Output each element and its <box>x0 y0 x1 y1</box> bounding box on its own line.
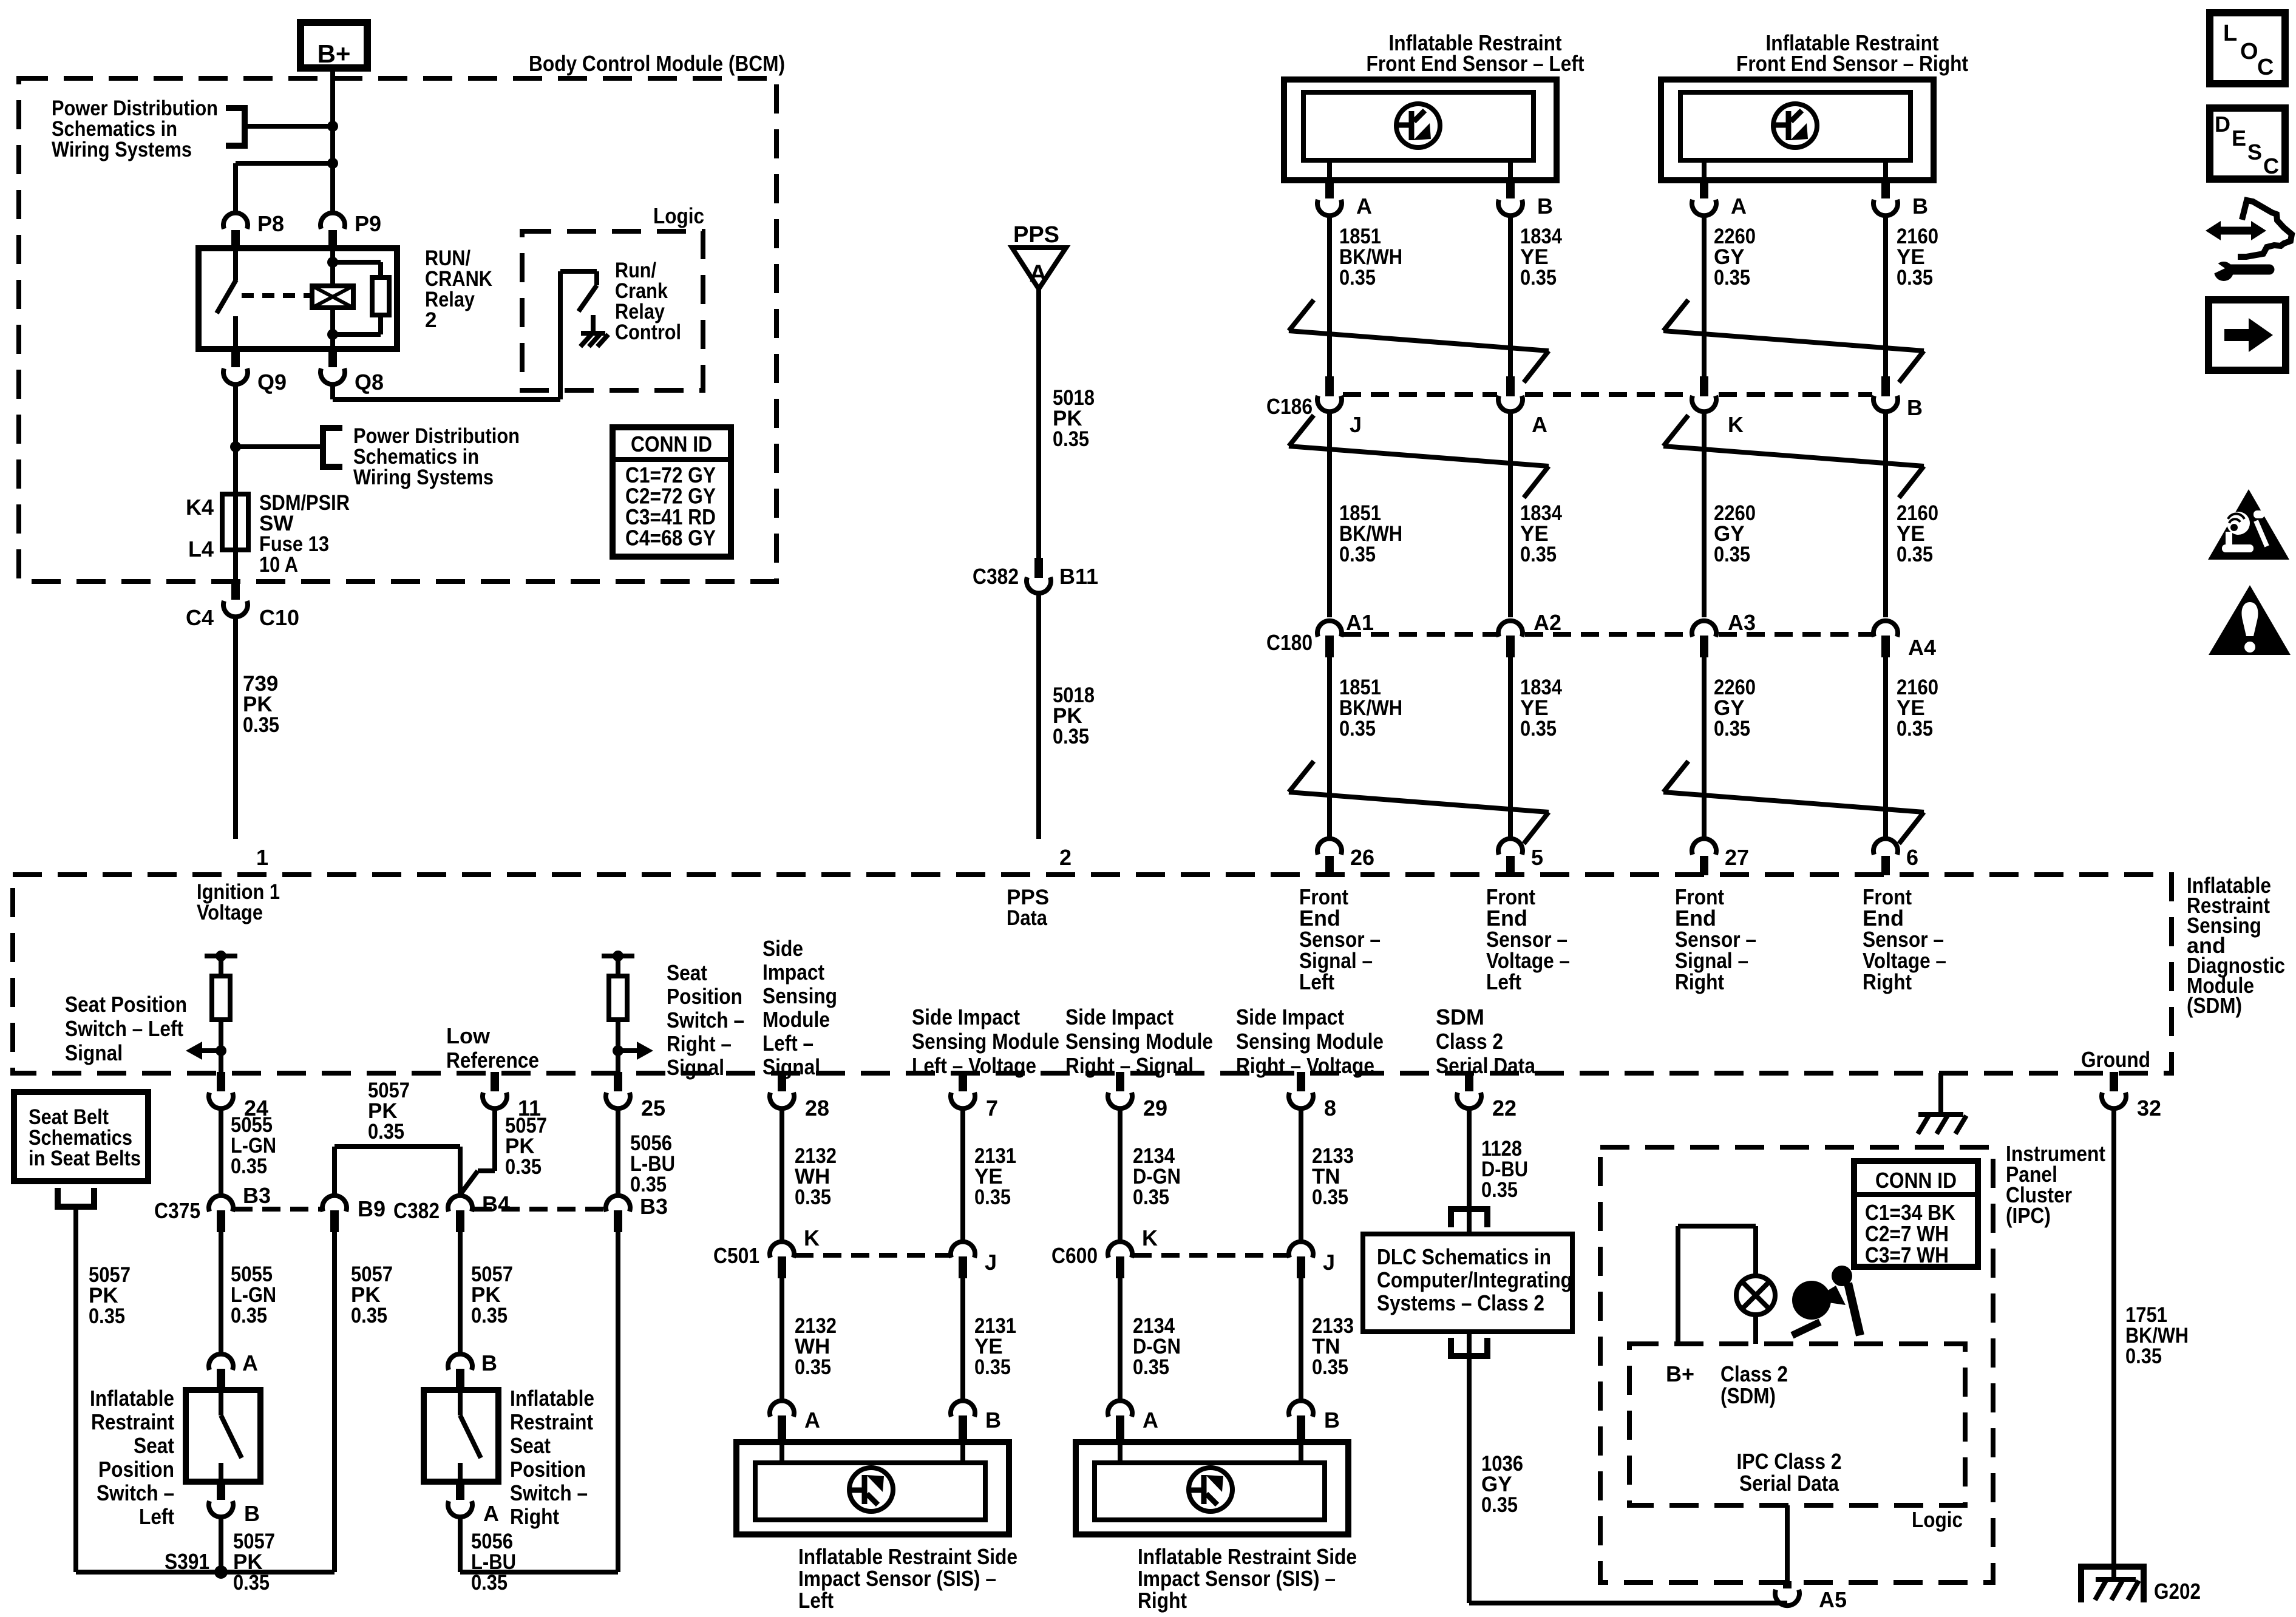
svg-text:C: C <box>2263 154 2279 178</box>
svg-text:Position: Position <box>667 984 742 1009</box>
svg-text:0.35: 0.35 <box>1897 266 1933 290</box>
svg-text:B3: B3 <box>640 1194 668 1219</box>
svg-text:Seat Position: Seat Position <box>65 992 187 1017</box>
svg-text:0.35: 0.35 <box>1481 1493 1518 1517</box>
svg-text:D: D <box>2215 112 2230 137</box>
svg-text:0.35: 0.35 <box>505 1155 542 1179</box>
svg-text:Class 2: Class 2 <box>1436 1029 1503 1054</box>
svg-text:2: 2 <box>425 308 436 332</box>
svg-text:CONN ID: CONN ID <box>631 432 712 456</box>
svg-text:Inflatable: Inflatable <box>510 1386 594 1411</box>
svg-text:B: B <box>1907 395 1923 420</box>
svg-text:Switch – Left: Switch – Left <box>65 1016 183 1041</box>
svg-text:0.35: 0.35 <box>1481 1178 1518 1202</box>
svg-text:Side: Side <box>763 936 803 961</box>
svg-text:2: 2 <box>1059 845 1072 870</box>
svg-text:Module: Module <box>763 1007 830 1032</box>
svg-text:Q8: Q8 <box>355 370 384 395</box>
svg-text:Position: Position <box>98 1457 174 1482</box>
svg-text:Body Control Module (BCM): Body Control Module (BCM) <box>529 51 785 76</box>
svg-text:A: A <box>1143 1408 1158 1432</box>
svg-text:0.35: 0.35 <box>1133 1355 1169 1379</box>
svg-text:Left: Left <box>1299 969 1334 994</box>
svg-text:29: 29 <box>1143 1096 1167 1120</box>
svg-text:0.35: 0.35 <box>1714 266 1750 290</box>
svg-text:Restraint: Restraint <box>510 1409 593 1434</box>
svg-text:Ground: Ground <box>2081 1047 2150 1072</box>
svg-text:0.35: 0.35 <box>89 1304 125 1328</box>
svg-text:P8: P8 <box>257 211 284 236</box>
svg-text:1: 1 <box>256 845 268 870</box>
svg-text:C3=7 WH: C3=7 WH <box>1865 1242 1949 1267</box>
svg-text:0.35: 0.35 <box>974 1355 1011 1379</box>
svg-text:5: 5 <box>1531 845 1543 870</box>
svg-text:B: B <box>985 1408 1001 1432</box>
svg-text:B: B <box>1324 1408 1340 1432</box>
svg-text:CONN ID: CONN ID <box>1875 1168 1957 1193</box>
svg-text:(IPC): (IPC) <box>2006 1203 2051 1228</box>
svg-text:0.35: 0.35 <box>1339 543 1376 566</box>
svg-text:0.35: 0.35 <box>2125 1344 2162 1368</box>
svg-text:Side Impact: Side Impact <box>1236 1005 1344 1029</box>
svg-text:P9: P9 <box>355 211 381 236</box>
svg-text:0.35: 0.35 <box>1520 717 1557 741</box>
svg-text:B: B <box>1912 194 1928 219</box>
svg-text:Sensing Module: Sensing Module <box>912 1029 1059 1054</box>
svg-text:C382: C382 <box>973 564 1019 589</box>
svg-text:Seat: Seat <box>667 960 707 985</box>
svg-text:32: 32 <box>2137 1096 2161 1120</box>
svg-text:Inflatable: Inflatable <box>90 1386 174 1411</box>
svg-text:B9: B9 <box>358 1196 385 1221</box>
svg-text:0.35: 0.35 <box>1520 543 1557 566</box>
svg-text:Reference: Reference <box>446 1048 539 1073</box>
svg-text:Front End Sensor – Left: Front End Sensor – Left <box>1367 51 1584 76</box>
svg-text:Wiring Systems: Wiring Systems <box>353 466 494 489</box>
svg-text:6: 6 <box>1906 845 1918 870</box>
svg-text:A: A <box>1356 194 1372 219</box>
svg-text:Sensing Module: Sensing Module <box>1236 1029 1384 1054</box>
svg-text:(SDM): (SDM) <box>1720 1383 1776 1408</box>
svg-text:B: B <box>1537 194 1553 219</box>
svg-text:Control: Control <box>615 320 681 344</box>
svg-text:0.35: 0.35 <box>1714 543 1750 566</box>
svg-text:0.35: 0.35 <box>351 1304 387 1327</box>
svg-text:A: A <box>483 1501 499 1526</box>
svg-text:C375: C375 <box>154 1198 200 1223</box>
svg-text:Inflatable Restraint Side: Inflatable Restraint Side <box>798 1544 1017 1569</box>
svg-text:A3: A3 <box>1728 610 1756 635</box>
svg-text:Switch –: Switch – <box>510 1480 588 1505</box>
svg-text:B: B <box>481 1351 497 1375</box>
svg-text:in Seat Belts: in Seat Belts <box>29 1147 141 1170</box>
svg-text:E: E <box>2232 126 2246 151</box>
svg-text:B11: B11 <box>1059 564 1098 589</box>
svg-text:Q9: Q9 <box>257 370 287 395</box>
svg-text:25: 25 <box>641 1096 665 1120</box>
svg-text:Logic: Logic <box>1912 1507 1963 1532</box>
svg-text:Impact Sensor (SIS) –: Impact Sensor (SIS) – <box>798 1566 996 1591</box>
svg-text:A: A <box>804 1408 820 1432</box>
svg-text:Restraint: Restraint <box>91 1409 174 1434</box>
svg-text:C382: C382 <box>393 1198 440 1223</box>
svg-text:Side Impact: Side Impact <box>1065 1005 1173 1029</box>
svg-text:Seat: Seat <box>134 1433 174 1458</box>
svg-text:S: S <box>2247 140 2262 164</box>
svg-text:0.35: 0.35 <box>1053 427 1089 451</box>
svg-text:A: A <box>1030 260 1047 287</box>
svg-text:K: K <box>804 1225 820 1250</box>
svg-text:10 A: 10 A <box>259 553 298 577</box>
svg-text:0.35: 0.35 <box>1312 1185 1348 1209</box>
svg-text:A5: A5 <box>1819 1587 1847 1612</box>
svg-text:K: K <box>1728 412 1744 437</box>
svg-text:PPS: PPS <box>1013 222 1059 248</box>
svg-text:Right: Right <box>1675 969 1724 994</box>
svg-text:Left: Left <box>798 1588 834 1613</box>
svg-text:0.35: 0.35 <box>471 1304 508 1327</box>
svg-text:G202: G202 <box>2154 1579 2201 1604</box>
svg-text:Wiring Systems: Wiring Systems <box>52 138 192 161</box>
svg-text:Switch –: Switch – <box>667 1008 744 1032</box>
svg-text:B+: B+ <box>1666 1361 1694 1386</box>
svg-text:A: A <box>242 1351 258 1375</box>
svg-text:A2: A2 <box>1533 610 1561 635</box>
svg-text:IPC Class 2: IPC Class 2 <box>1737 1449 1842 1474</box>
svg-text:22: 22 <box>1492 1096 1517 1120</box>
svg-text:0.35: 0.35 <box>1897 717 1933 741</box>
svg-text:J: J <box>985 1250 997 1275</box>
svg-text:B: B <box>244 1501 260 1526</box>
svg-text:B3: B3 <box>243 1183 271 1208</box>
svg-text:Front End Sensor – Right: Front End Sensor – Right <box>1736 51 1968 76</box>
svg-text:Position: Position <box>510 1457 586 1482</box>
svg-text:L: L <box>2223 21 2237 46</box>
svg-text:Impact Sensor (SIS) –: Impact Sensor (SIS) – <box>1138 1566 1336 1591</box>
svg-text:0.35: 0.35 <box>243 713 279 737</box>
svg-text:A: A <box>1532 412 1547 437</box>
svg-text:Inflatable Restraint Side: Inflatable Restraint Side <box>1138 1544 1357 1569</box>
svg-text:C186: C186 <box>1266 394 1313 419</box>
svg-text:Right: Right <box>510 1504 559 1529</box>
svg-text:7: 7 <box>986 1096 998 1120</box>
svg-text:Seat: Seat <box>510 1433 551 1458</box>
svg-text:O: O <box>2240 39 2258 64</box>
svg-text:(SDM): (SDM) <box>2187 993 2242 1018</box>
svg-text:DLC Schematics in: DLC Schematics in <box>1377 1244 1551 1269</box>
svg-text:C4: C4 <box>186 605 214 630</box>
svg-text:0.35: 0.35 <box>1339 266 1376 290</box>
svg-text:C4=68 GY: C4=68 GY <box>625 526 716 551</box>
svg-text:Computer/Integrating: Computer/Integrating <box>1377 1267 1572 1292</box>
svg-text:Sensing: Sensing <box>763 983 837 1008</box>
svg-text:Right: Right <box>1863 969 1912 994</box>
svg-text:Impact: Impact <box>763 960 824 985</box>
svg-text:Data: Data <box>1007 906 1047 930</box>
svg-text:0.35: 0.35 <box>795 1185 831 1209</box>
svg-text:Sensing Module: Sensing Module <box>1065 1029 1213 1054</box>
svg-text:Left: Left <box>139 1504 174 1529</box>
svg-text:A4: A4 <box>1908 635 1936 660</box>
svg-text:B+: B+ <box>318 39 351 68</box>
svg-text:C180: C180 <box>1266 630 1313 655</box>
svg-text:0.35: 0.35 <box>1339 717 1376 741</box>
svg-text:0.35: 0.35 <box>1897 543 1933 566</box>
svg-text:Serial Data: Serial Data <box>1739 1471 1839 1496</box>
svg-text:27: 27 <box>1725 845 1749 870</box>
svg-text:Systems – Class 2: Systems – Class 2 <box>1377 1290 1544 1315</box>
svg-text:B4: B4 <box>482 1192 510 1216</box>
svg-text:Voltage: Voltage <box>197 901 263 924</box>
svg-text:0.35: 0.35 <box>795 1355 831 1379</box>
svg-text:S391: S391 <box>165 1549 209 1574</box>
svg-text:A: A <box>1731 194 1747 219</box>
svg-text:0.35: 0.35 <box>368 1120 404 1144</box>
svg-text:L4: L4 <box>188 537 214 561</box>
svg-text:0.35: 0.35 <box>1520 266 1557 290</box>
svg-text:C: C <box>2257 55 2274 80</box>
svg-text:Signal: Signal <box>763 1054 820 1079</box>
svg-text:Switch –: Switch – <box>97 1480 174 1505</box>
svg-text:Signal: Signal <box>667 1055 724 1080</box>
svg-text:Left – Voltage: Left – Voltage <box>912 1053 1036 1078</box>
svg-text:Left –: Left – <box>763 1031 813 1056</box>
svg-text:Signal: Signal <box>65 1040 123 1065</box>
svg-text:J: J <box>1350 412 1362 437</box>
svg-text:Class 2: Class 2 <box>1720 1361 1788 1386</box>
svg-text:K: K <box>1142 1225 1158 1250</box>
svg-text:0.35: 0.35 <box>231 1154 267 1178</box>
svg-text:0.35: 0.35 <box>1053 725 1089 748</box>
svg-text:28: 28 <box>805 1096 829 1120</box>
svg-text:Left: Left <box>1486 969 1521 994</box>
svg-text:0.35: 0.35 <box>1714 717 1750 741</box>
svg-text:C600: C600 <box>1051 1243 1098 1268</box>
svg-text:0.35: 0.35 <box>974 1185 1011 1209</box>
svg-text:8: 8 <box>1324 1096 1336 1120</box>
svg-text:C501: C501 <box>713 1243 759 1268</box>
svg-text:0.35: 0.35 <box>630 1173 667 1196</box>
svg-text:0.35: 0.35 <box>1312 1355 1348 1379</box>
svg-text:SDM: SDM <box>1436 1005 1484 1029</box>
svg-text:Low: Low <box>446 1023 491 1048</box>
svg-text:A1: A1 <box>1346 610 1374 635</box>
svg-text:Side Impact: Side Impact <box>912 1005 1020 1029</box>
svg-text:Serial Data: Serial Data <box>1436 1053 1536 1078</box>
svg-text:Right – Signal: Right – Signal <box>1065 1053 1194 1078</box>
svg-text:Right –: Right – <box>667 1031 732 1056</box>
svg-text:J: J <box>1323 1250 1335 1275</box>
svg-text:0.35: 0.35 <box>1133 1185 1169 1209</box>
svg-text:26: 26 <box>1350 845 1374 870</box>
svg-text:C10: C10 <box>259 605 299 630</box>
svg-text:Right: Right <box>1138 1588 1187 1613</box>
svg-text:Logic: Logic <box>653 203 704 228</box>
svg-text:0.35: 0.35 <box>231 1304 267 1327</box>
svg-text:K4: K4 <box>186 495 214 520</box>
